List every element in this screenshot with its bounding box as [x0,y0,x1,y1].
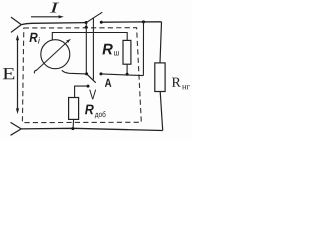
node Rdob bottom junction dot [71,127,74,130]
wire galvanometer top to shunt [52,33,127,41]
wire shunt bottom feed [126,64,128,74]
galvanometer needle [36,42,67,71]
wire load bottom [160,92,163,131]
wire bottom [21,128,163,130]
switch S1 pivot dot [85,21,88,24]
label Rdob [85,105,94,115]
wire galvanometer bottom to junction [62,70,87,74]
label I [50,3,59,13]
wire V contact to Rdob [75,86,88,97]
node lower pivot dot [85,72,88,75]
resistor Rsh [123,40,131,64]
dashed instrument box [22,28,141,123]
wire vertical from pivot to lower junction [85,23,87,74]
wire riser from top junction [142,22,144,76]
node dot below pivot [85,26,88,29]
wire from A to right riser [101,74,143,76]
EMF arrow [17,39,19,111]
current arrow I [31,16,59,18]
source terminal chevron bottom-left [11,122,22,135]
needle tail hook [34,70,36,73]
wire right branch down to load [160,22,162,63]
node A contact dot [100,72,103,75]
switch S1 contact dot [100,21,103,24]
switch S1 blade [86,12,102,23]
node V contact dot [87,85,90,88]
wire vertical from blade to lower contact [92,18,94,80]
wire Rdob bottom feed [72,119,75,128]
label Rn [172,78,181,87]
resistor Rdob [69,98,79,120]
galvanometer G [41,40,70,69]
node top-right junction dot [142,20,145,23]
label Rn subscript [182,85,190,89]
label Ri [30,33,38,42]
label E [3,68,15,79]
source terminal chevron top-left [11,17,21,32]
wire top right [101,21,161,23]
label V [89,90,96,100]
label Rsh [102,44,112,55]
switch S2 blade [87,74,96,83]
label A [105,79,112,87]
resistor Rn [155,63,165,92]
wire top left [21,23,86,25]
node shunt junction dot [126,73,129,76]
